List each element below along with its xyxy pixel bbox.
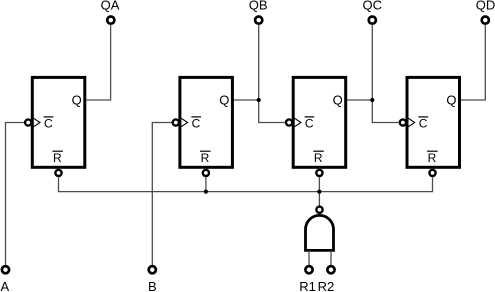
wire reset net (R inputs of all flip-flops to NAND output) xyxy=(59,177,433,205)
junction reset net at NAND output xyxy=(317,190,321,194)
svg-text:Q: Q xyxy=(219,93,229,108)
svg-text:B: B xyxy=(148,279,157,292)
junction on net QB xyxy=(257,98,261,102)
wire net QD (FF4 Q output to terminal QD) xyxy=(461,25,486,100)
wire net QB (FF2 Q output to terminal QB and FF3 clock) xyxy=(234,25,285,123)
terminal B xyxy=(149,266,156,273)
junction reset net at FF2 xyxy=(204,190,208,194)
wire net QA (FF1 Q output to terminal QA) xyxy=(86,25,110,100)
terminal QC xyxy=(369,17,376,24)
wire net B (terminal B to FF2 clock) xyxy=(152,123,171,265)
flip-flop U3 xyxy=(286,77,346,176)
wire net QC (FF3 Q output to terminal QC and FF4 clock) xyxy=(347,25,399,123)
terminal A xyxy=(2,266,9,273)
flip-flop U2 xyxy=(173,77,233,176)
junction on net QC xyxy=(370,98,374,102)
terminal QD xyxy=(482,17,489,24)
svg-text:C: C xyxy=(419,116,428,130)
svg-text:QB: QB xyxy=(249,0,268,13)
svg-text:C: C xyxy=(192,116,201,130)
wire NAND input legs xyxy=(309,250,331,265)
svg-text:R: R xyxy=(201,151,210,165)
svg-text:R1: R1 xyxy=(299,279,316,292)
flip-flop U1 xyxy=(25,77,85,176)
svg-text:R: R xyxy=(428,151,437,165)
svg-text:Q: Q xyxy=(333,93,343,108)
svg-text:Q: Q xyxy=(72,93,82,108)
svg-text:R2: R2 xyxy=(318,279,335,292)
svg-text:R: R xyxy=(314,151,323,165)
svg-text:QD: QD xyxy=(476,0,495,13)
terminal R1 xyxy=(305,266,312,273)
NAND gate U5 xyxy=(306,207,334,251)
svg-text:Q: Q xyxy=(446,93,456,108)
wire net A (terminal A to FF1 clock) xyxy=(6,123,24,265)
flip-flop U4 xyxy=(400,77,460,176)
terminal QA xyxy=(107,17,114,24)
svg-text:C: C xyxy=(44,116,53,130)
svg-text:QC: QC xyxy=(363,0,383,13)
terminal R2 xyxy=(327,266,334,273)
svg-text:A: A xyxy=(0,279,9,292)
svg-text:C: C xyxy=(305,116,314,130)
svg-text:R: R xyxy=(53,151,62,165)
terminal QB xyxy=(255,17,262,24)
svg-text:QA: QA xyxy=(101,0,120,13)
